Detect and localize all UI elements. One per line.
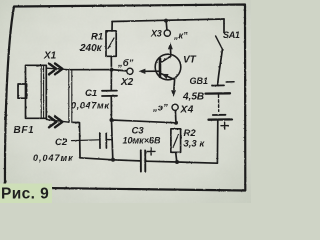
svg-text:240к: 240к (79, 43, 103, 54)
svg-text:R2: R2 (184, 128, 197, 139)
node: bottom rail right junction (175, 160, 179, 164)
wire C1 node to bottom rail (112, 120, 113, 160)
battery plus sign (221, 122, 228, 129)
figure frame (5, 5, 245, 191)
transistor VT (155, 54, 181, 80)
switch SA1 (223, 19, 225, 33)
battery GB1 (212, 84, 224, 86)
svg-text:„э”: „э” (152, 103, 168, 114)
page background (0, 0, 251, 203)
capacitor C1 (110, 70, 112, 90)
svg-text:X2: X2 (120, 77, 134, 88)
connector X1 socket strip (68, 70, 70, 123)
svg-text:4,5В: 4,5В (182, 92, 204, 103)
caption background (0, 184, 52, 204)
bottom rail wire right (146, 161, 217, 163)
speaker BF1 (26, 65, 47, 118)
svg-text:BF1: BF1 (14, 125, 35, 136)
resistor R2 (171, 129, 181, 153)
svg-text:0,047мк: 0,047мк (71, 101, 110, 111)
wire base row (71, 70, 127, 71)
node: top rail junction (164, 19, 168, 23)
svg-text:X4: X4 (180, 105, 194, 116)
socket X3 (165, 21, 168, 30)
svg-text:10мк×6В: 10мк×6В (123, 136, 161, 146)
svg-text:VT: VT (183, 55, 197, 66)
resistor R1 (111, 22, 113, 31)
svg-text:С2: С2 (55, 137, 68, 148)
node: emitter junction (174, 121, 178, 125)
capacitor C3 (140, 150, 142, 171)
wire mid row (112, 120, 177, 123)
connector X1 plug bottom (46, 120, 69, 123)
node: C1 bottom junction (110, 118, 114, 122)
svg-text:„к”: „к” (173, 31, 188, 41)
top supply rail wire (112, 19, 224, 22)
svg-text:SA1: SA1 (223, 30, 240, 40)
svg-text:X3: X3 (150, 29, 162, 39)
node: base junction (110, 68, 114, 72)
svg-text:С1: С1 (85, 88, 97, 99)
bottom rail wire left (80, 158, 140, 161)
battery minus sign (226, 81, 234, 83)
svg-text:0,047мк: 0,047мк (33, 153, 74, 163)
socket X4 (172, 104, 178, 110)
svg-text:GB1: GB1 (190, 76, 209, 86)
connector X1 plug top (46, 68, 69, 69)
node: bottom rail left junction (111, 158, 115, 162)
svg-text:3,3 к: 3,3 к (184, 139, 206, 150)
capacitor C2 (72, 139, 100, 142)
svg-text:X1: X1 (43, 51, 57, 62)
wire bottom left riser (72, 122, 80, 158)
svg-text:R1: R1 (91, 32, 103, 43)
svg-text:„б”: „б” (117, 58, 134, 69)
svg-text:Рис. 9: Рис. 9 (1, 185, 49, 202)
socket X2 (127, 68, 133, 74)
